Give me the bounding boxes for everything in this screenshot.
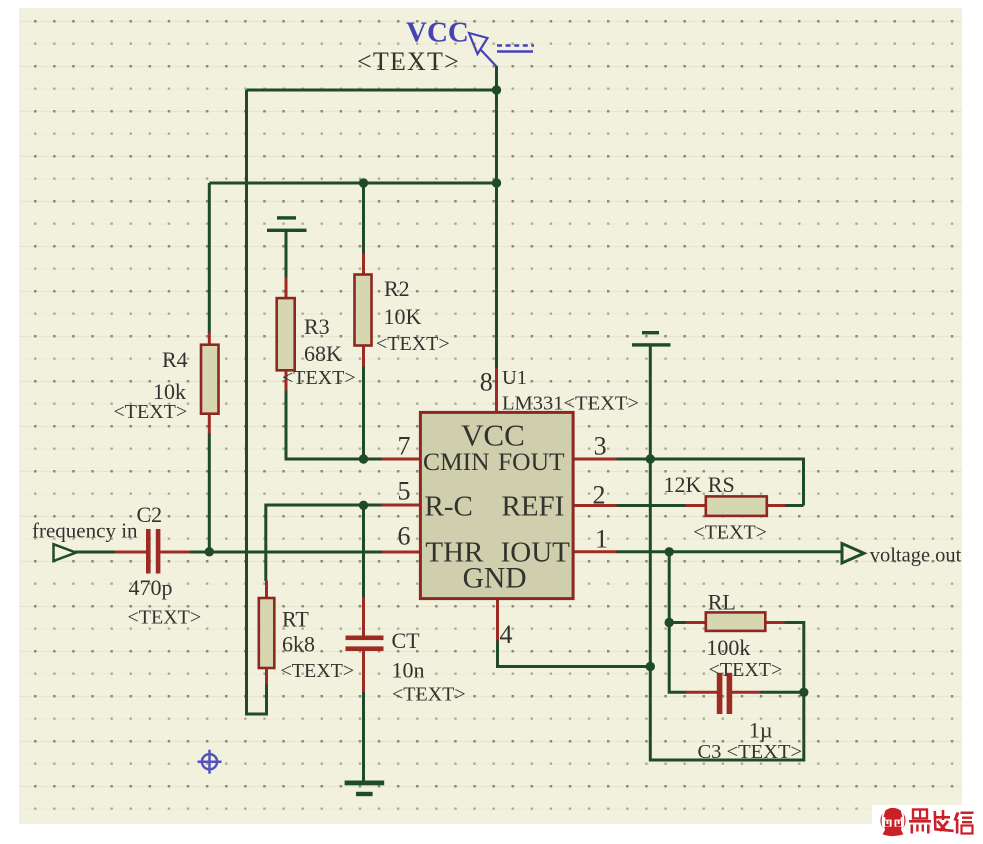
- wire VCC vertical: [495, 66, 498, 368]
- wire C3 right to corner: [760, 691, 804, 694]
- svg-text:1µ: 1µ: [749, 718, 773, 743]
- output port arrow: [842, 544, 864, 564]
- resistor RS: [706, 496, 767, 516]
- pin RS left lead: [686, 504, 706, 507]
- svg-text:R4: R4: [162, 347, 188, 372]
- resistor RT: [259, 598, 275, 668]
- svg-text:7: 7: [398, 432, 411, 461]
- svg-text:<TEXT>: <TEXT>: [128, 607, 202, 629]
- pin 8 stub: [495, 368, 498, 413]
- node VCC rail2: [492, 178, 501, 187]
- pin R3 bottom lead: [285, 370, 288, 391]
- wire pin5 R-C horizontal and RT drop: [266, 505, 383, 581]
- resistor RL: [706, 612, 766, 631]
- origin marker crosshair: [198, 750, 222, 774]
- pin 2 stub: [573, 504, 617, 507]
- svg-text:GND: GND: [463, 563, 527, 595]
- svg-text:3: 3: [594, 432, 607, 461]
- node FOUT ground junction: [646, 454, 655, 463]
- wire C2 to THR: [189, 551, 383, 554]
- pin R4 bottom lead: [208, 414, 211, 434]
- logo text dingdaxin: [909, 810, 974, 834]
- svg-text:10n: 10n: [392, 658, 425, 683]
- resistor R2: [355, 275, 372, 346]
- svg-text:RT: RT: [282, 607, 309, 632]
- svg-text:U1: U1: [502, 367, 527, 389]
- svg-text:<TEXT>: <TEXT>: [357, 47, 460, 76]
- pin 5 stub: [382, 504, 421, 507]
- svg-text:RL: RL: [708, 590, 736, 615]
- wire pin4 GND to right: [498, 640, 651, 667]
- svg-text:100k: 100k: [706, 635, 750, 660]
- node R2 top junction: [359, 178, 368, 187]
- svg-text:<TEXT>: <TEXT>: [709, 659, 783, 681]
- node VCC rail corner: [492, 85, 501, 94]
- node IOUT RL junction: [665, 547, 674, 556]
- node C3 right junction: [799, 688, 808, 697]
- svg-text:FOUT: FOUT: [498, 447, 565, 476]
- svg-text:5: 5: [398, 477, 411, 506]
- pin C2 right lead: [160, 551, 189, 554]
- svg-text:R3: R3: [304, 314, 330, 339]
- svg-text:<TEXT>: <TEXT>: [281, 660, 355, 682]
- wire R2 bottom: [362, 366, 365, 461]
- pin RT top lead: [265, 581, 268, 599]
- wire CT top vertical: [362, 505, 365, 598]
- svg-text:LM331<TEXT>: LM331<TEXT>: [502, 393, 639, 415]
- capacitor CT: [346, 636, 384, 652]
- wire R2 top: [362, 183, 365, 254]
- svg-text:REFI: REFI: [502, 491, 565, 523]
- wire top VCC rail: [247, 89, 497, 92]
- pin C2 left lead: [115, 551, 147, 554]
- wire frequency input segment: [75, 551, 115, 554]
- node R2 bottom junction: [359, 454, 368, 463]
- svg-text:<TEXT>: <TEXT>: [114, 401, 188, 423]
- node C2 R4 junction: [205, 547, 214, 556]
- svg-text:<TEXT>: <TEXT>: [282, 367, 356, 389]
- input port arrow: [54, 544, 77, 561]
- pin RL left lead: [686, 621, 706, 624]
- svg-text:470p: 470p: [129, 575, 173, 600]
- wire ground to R3: [285, 231, 288, 278]
- pin 7 stub: [382, 458, 421, 461]
- svg-text:voltage out: voltage out: [870, 545, 962, 567]
- svg-text:12K: 12K: [664, 472, 702, 497]
- pin C3 left lead: [686, 691, 717, 694]
- chip U1 LM331 body: [420, 412, 573, 598]
- svg-text:C2: C2: [137, 502, 163, 527]
- wire RL C3 left vertical: [669, 552, 686, 693]
- resistor R3: [277, 298, 295, 370]
- pin R4 top lead: [208, 333, 211, 346]
- node RL left junction: [665, 618, 674, 627]
- wire RL right to corner: [784, 621, 804, 624]
- pin R2 top lead: [362, 254, 365, 276]
- wire pin3 FOUT to RS right: [616, 459, 804, 506]
- wire pin1 IOUT to output: [616, 550, 843, 553]
- svg-text:R2: R2: [384, 276, 410, 301]
- pin C3 right lead: [732, 691, 761, 694]
- pin 3 stub: [573, 458, 617, 461]
- node pin4 ground junction: [646, 662, 655, 671]
- ground above R3: [267, 216, 307, 232]
- svg-text:RS: RS: [708, 472, 735, 497]
- node CT top junction: [359, 501, 368, 510]
- svg-text:6: 6: [398, 522, 411, 551]
- wire RL left lead join: [669, 621, 686, 624]
- logo emblem: [880, 808, 905, 836]
- pin 1 stub: [573, 550, 617, 553]
- pin R3 top lead: [285, 278, 288, 299]
- wire RS right lead join: [785, 504, 804, 507]
- pin 4 stub: [496, 599, 499, 641]
- ground top right: [632, 331, 671, 347]
- resistor R4: [201, 345, 219, 414]
- svg-text:<TEXT>: <TEXT>: [376, 333, 450, 355]
- pin RT bottom lead: [265, 668, 268, 685]
- svg-text:1: 1: [595, 525, 608, 554]
- svg-text:4: 4: [500, 620, 513, 649]
- pin RS right lead: [766, 504, 785, 507]
- svg-text:C3 <TEXT>: C3 <TEXT>: [698, 741, 803, 763]
- svg-text:8: 8: [480, 368, 493, 397]
- pin 6 stub: [382, 551, 421, 554]
- pin CT bottom lead: [362, 651, 365, 692]
- capacitor C3: [717, 673, 732, 714]
- svg-text:R-C: R-C: [425, 491, 473, 523]
- pin RL right lead: [765, 621, 785, 624]
- wire pin2 REFI to RS left: [616, 504, 687, 507]
- svg-text:10K: 10K: [384, 304, 422, 329]
- wire R4 bottom: [208, 433, 211, 553]
- wire pin7 CMIN horizontal: [285, 458, 384, 461]
- pin CT top lead: [362, 598, 365, 637]
- svg-text:68K: 68K: [304, 341, 342, 366]
- ground bottom: [345, 781, 385, 797]
- wire left long vertical to RT bottom: [247, 90, 267, 714]
- pin R2 bottom lead: [362, 345, 365, 367]
- wire right ground vertical and bottom run: [650, 346, 804, 760]
- svg-text:frequency in: frequency in: [32, 519, 138, 543]
- wire second rail: [209, 182, 496, 185]
- svg-text:<TEXT>: <TEXT>: [392, 684, 466, 706]
- wire R3 bottom to CMIN net: [285, 390, 288, 461]
- wire CT bottom to ground: [362, 692, 365, 782]
- svg-text:CT: CT: [392, 628, 421, 653]
- svg-text:CMIN: CMIN: [423, 447, 490, 476]
- svg-text:2: 2: [593, 481, 606, 510]
- svg-text:<TEXT>: <TEXT>: [693, 522, 767, 544]
- svg-text:VCC: VCC: [406, 17, 469, 49]
- power symbol VCC arrow: [469, 33, 534, 67]
- wire R4 top: [208, 183, 211, 333]
- capacitor C2: [146, 529, 160, 574]
- svg-text:6k8: 6k8: [282, 632, 315, 657]
